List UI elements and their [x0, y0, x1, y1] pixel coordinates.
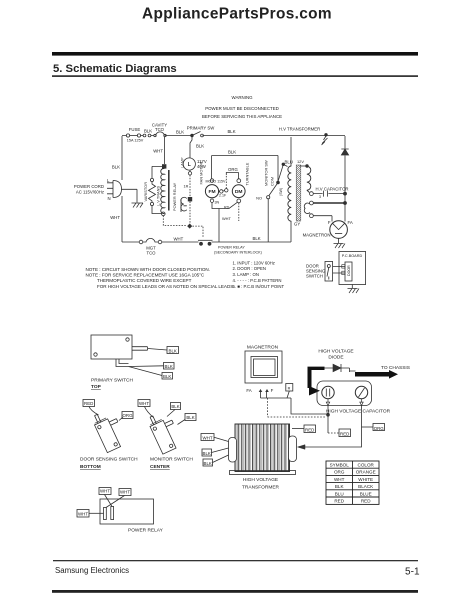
svg-text:15A 125V: 15A 125V	[127, 139, 144, 143]
svg-text:HIGH VOLTAGE: HIGH VOLTAGE	[243, 477, 278, 483]
svg-text:L.V TRANS: L.V TRANS	[156, 186, 161, 206]
svg-text:1. INPUT : 120V 60Hz: 1. INPUT : 120V 60Hz	[233, 260, 275, 265]
svg-text:TO CHASSIS: TO CHASSIS	[381, 365, 410, 371]
svg-text:RED: RED	[305, 427, 314, 432]
svg-text:POWER CORD: POWER CORD	[74, 184, 104, 189]
svg-text:NOTE : CIRCUIT SHOWN WITH DOOR: NOTE : CIRCUIT SHOWN WITH DOOR CLOSED PO…	[86, 267, 210, 272]
svg-text:3. LAMP : ON: 3. LAMP : ON	[233, 272, 259, 277]
svg-text:FUSE: FUSE	[129, 127, 141, 132]
svg-text:LAMP: LAMP	[180, 157, 185, 168]
svg-text:RED: RED	[361, 499, 371, 504]
svg-text:RD: RD	[224, 206, 230, 210]
svg-text:NO: NO	[256, 196, 262, 201]
svg-text:BLK: BLK	[144, 129, 152, 134]
svg-text:WHITE: WHITE	[358, 477, 373, 482]
svg-text:FA: FA	[348, 220, 353, 225]
svg-text:ORG: ORG	[228, 167, 238, 172]
svg-text:COM: COM	[270, 177, 275, 186]
svg-text:FAN MOTOR: FAN MOTOR	[199, 161, 204, 184]
svg-text:BLK: BLK	[204, 461, 212, 466]
svg-text:2.1F: 2.1F	[219, 194, 227, 198]
svg-text:BLACK: BLACK	[358, 484, 374, 489]
svg-text:F: F	[271, 388, 274, 393]
svg-text:L: L	[188, 162, 191, 168]
svg-text:ORANGE: ORANGE	[356, 470, 376, 475]
svg-text:WHT: WHT	[334, 477, 345, 482]
svg-text:WHT: WHT	[222, 216, 231, 221]
svg-text:TURNTABLE: TURNTABLE	[245, 162, 250, 185]
svg-text:DOOR: DOOR	[347, 265, 351, 276]
svg-text:DM: DM	[235, 189, 243, 195]
svg-text:NOTE : FOR SERVICE REPLACEMENT: NOTE : FOR SERVICE REPLACEMENT USE 16GA …	[86, 273, 205, 278]
svg-text:POWER RELAY: POWER RELAY	[128, 528, 164, 534]
svg-text:BLK: BLK	[253, 236, 261, 241]
svg-text:BLK: BLK	[176, 130, 184, 135]
svg-text:BLK: BLK	[163, 374, 171, 379]
svg-text:FA: FA	[246, 388, 251, 393]
svg-text:ORG: ORG	[374, 426, 385, 431]
svg-text:TCO: TCO	[155, 127, 165, 132]
svg-text:1R: 1R	[184, 185, 189, 189]
svg-text:VARISTOR: VARISTOR	[143, 182, 148, 202]
svg-text:R: R	[288, 387, 291, 391]
svg-text:Samsung Electronics: Samsung Electronics	[55, 566, 129, 575]
svg-text:TCO: TCO	[146, 251, 156, 256]
svg-text:12V: 12V	[297, 159, 304, 164]
svg-text:PRIMARY SWITCH: PRIMARY SWITCH	[91, 378, 133, 384]
svg-text:P.C.BOARD: P.C.BOARD	[342, 254, 363, 258]
svg-text:ORG: ORG	[334, 470, 345, 475]
svg-text:HIGH VOLTAGE: HIGH VOLTAGE	[318, 349, 353, 355]
svg-text:DOOR SENSING SWITCH: DOOR SENSING SWITCH	[80, 457, 138, 463]
svg-text:PRIMARY SW: PRIMARY SW	[187, 126, 215, 131]
svg-text:BLU: BLU	[335, 491, 344, 496]
svg-text:RED: RED	[84, 401, 93, 406]
svg-text:BEFORE SERVICING THIS APPLIANC: BEFORE SERVICING THIS APPLIANCE	[202, 114, 282, 119]
svg-text:ORG: ORG	[122, 413, 133, 418]
svg-text:CENTER: CENTER	[150, 464, 170, 470]
svg-text:BLK: BLK	[227, 129, 235, 134]
svg-text:H.V CAPACITOR: H.V CAPACITOR	[316, 187, 349, 192]
svg-text:(SECONDARY INTERLOCK): (SECONDARY INTERLOCK)	[214, 251, 262, 255]
svg-text:BLK: BLK	[171, 404, 179, 409]
svg-text:5. ■ : P.C.B IN/OUT POINT: 5. ■ : P.C.B IN/OUT POINT	[233, 284, 285, 289]
svg-text:COLOR: COLOR	[358, 463, 375, 468]
svg-text:MONITOR SW: MONITOR SW	[264, 160, 269, 186]
svg-text:MAGNETRON: MAGNETRON	[247, 345, 279, 351]
svg-text:BLK: BLK	[196, 144, 204, 149]
svg-text:5. Schematic Diagrams: 5. Schematic Diagrams	[53, 63, 177, 75]
svg-text:3: 3	[319, 195, 321, 199]
svg-text:DIODE: DIODE	[328, 355, 343, 361]
svg-text:POWER MUST BE DISCONNECTED: POWER MUST BE DISCONNECTED	[205, 106, 279, 111]
svg-text:BLK: BLK	[186, 415, 194, 420]
svg-text:AC 115V/60Hz: AC 115V/60Hz	[76, 190, 104, 195]
svg-text:WARNING: WARNING	[231, 95, 253, 100]
svg-text:TRANSFORMER: TRANSFORMER	[242, 485, 280, 491]
svg-text:5-1: 5-1	[405, 567, 420, 578]
svg-text:THERMOPLASTIC COVERED WIRE EXC: THERMOPLASTIC COVERED WIRE EXCEPT	[97, 278, 192, 283]
svg-text:POWER RELAY: POWER RELAY	[172, 182, 177, 211]
svg-text:BLK: BLK	[203, 451, 211, 456]
svg-text:BLUE: BLUE	[360, 491, 372, 496]
svg-text:H.V TRANSFORMER: H.V TRANSFORMER	[279, 127, 320, 132]
svg-text:BLK: BLK	[169, 348, 177, 353]
svg-text:WHT: WHT	[110, 215, 120, 220]
svg-text:RED: RED	[334, 499, 344, 504]
svg-text:BLK: BLK	[335, 484, 345, 489]
svg-text:N: N	[108, 196, 111, 201]
svg-text:WHT: WHT	[139, 401, 149, 406]
svg-text:MOTO 115V: MOTO 115V	[206, 180, 226, 184]
svg-text:WHT: WHT	[153, 149, 163, 154]
svg-text:F: F	[328, 220, 331, 225]
svg-text:AppliancePartsPros.com: AppliancePartsPros.com	[142, 6, 332, 23]
svg-text:GY: GY	[294, 222, 300, 227]
svg-text:BLK: BLK	[228, 150, 236, 155]
svg-text:RED: RED	[340, 431, 349, 436]
svg-text:HIGH VOLTAGE CAPACITOR: HIGH VOLTAGE CAPACITOR	[326, 409, 391, 415]
svg-text:WHT: WHT	[203, 436, 213, 441]
svg-text:BLK: BLK	[165, 364, 173, 369]
svg-text:SWITCH: SWITCH	[306, 274, 323, 279]
svg-text:(SW): (SW)	[279, 188, 283, 196]
svg-text:BLU: BLU	[285, 160, 293, 165]
svg-text:WHT: WHT	[120, 490, 130, 495]
svg-text:FOR HIGH VOLTAGE LEADS OR AS N: FOR HIGH VOLTAGE LEADS OR AS NOTED ON SP…	[97, 284, 234, 289]
svg-text:BOTTOM: BOTTOM	[80, 464, 101, 470]
svg-text:TOP: TOP	[91, 384, 102, 390]
svg-text:WHT: WHT	[78, 512, 88, 517]
svg-text:SYMBOL: SYMBOL	[330, 463, 350, 468]
svg-text:MAGNETRON: MAGNETRON	[303, 233, 331, 238]
svg-text:4. - - - - : P.C.B PATTERN: 4. - - - - : P.C.B PATTERN	[233, 278, 282, 283]
svg-text:L: L	[107, 178, 110, 183]
svg-text:FM: FM	[208, 189, 215, 195]
svg-text:WHT: WHT	[100, 489, 110, 494]
svg-text:3N: 3N	[215, 201, 220, 205]
svg-text:2. DOOR : OPEN: 2. DOOR : OPEN	[233, 266, 266, 271]
svg-text:BLK: BLK	[112, 165, 120, 170]
svg-text:WHT: WHT	[174, 237, 184, 242]
svg-text:POWER RELAY: POWER RELAY	[218, 246, 245, 250]
svg-text:MONITOR SWITCH: MONITOR SWITCH	[150, 457, 193, 463]
